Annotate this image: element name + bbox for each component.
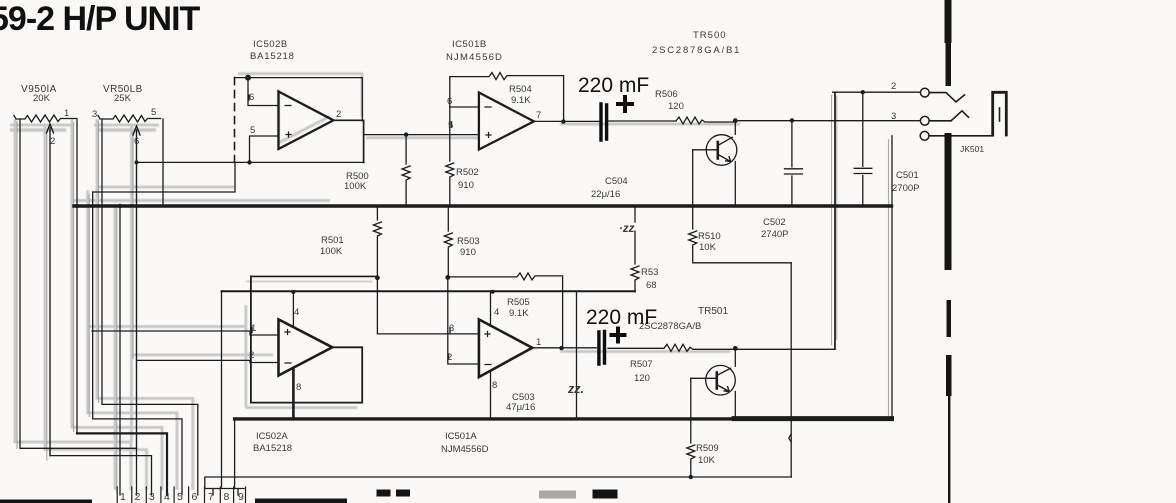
resistor R510 10K from TR500 base bbox=[689, 150, 792, 263]
svg-text:R510: R510 bbox=[698, 231, 721, 242]
wire pot B wiper to IC502B buffer node bbox=[137, 161, 365, 163]
transistor TR500 circle bbox=[706, 135, 737, 166]
TR501 base lead bbox=[691, 377, 717, 379]
svg-text:8: 8 bbox=[492, 380, 497, 391]
svg-text:47μ/16: 47μ/16 bbox=[506, 402, 535, 413]
ground rail thick right portion bbox=[734, 416, 892, 421]
svg-text:2: 2 bbox=[891, 81, 896, 92]
svg-text:120: 120 bbox=[634, 373, 650, 384]
connector pin numbers 1-9 bbox=[120, 491, 244, 503]
svg-text:2740P: 2740P bbox=[761, 229, 788, 240]
svg-text:2: 2 bbox=[447, 352, 452, 363]
svg-text:5: 5 bbox=[177, 491, 183, 503]
op-amp IC502A triangle bbox=[279, 319, 333, 375]
wire pot B left end (pin 3) to connector pin 6 bbox=[102, 119, 198, 495]
resistor R501 100K bbox=[373, 206, 381, 278]
TR501 collector lead bbox=[717, 368, 731, 375]
svg-text:9: 9 bbox=[238, 491, 244, 503]
svg-text:R501: R501 bbox=[321, 235, 344, 246]
svg-text:5: 5 bbox=[448, 120, 453, 131]
TR501 base bar bbox=[715, 373, 718, 389]
wire TR501 collector to output line bbox=[734, 348, 736, 366]
svg-text:3: 3 bbox=[149, 491, 155, 503]
svg-text:R509: R509 bbox=[696, 443, 719, 454]
capacitor C504 / resistor R553 6.8 chain bbox=[631, 206, 639, 292]
svg-text:3: 3 bbox=[449, 323, 454, 334]
node TR501 collector bbox=[733, 346, 738, 351]
TR500 collector lead bbox=[718, 137, 733, 145]
node pot A right at bus bbox=[75, 204, 79, 208]
IC502B input polarity marks bbox=[285, 106, 291, 138]
connector pin separator ticks bbox=[117, 487, 245, 503]
ground bus (upper) bbox=[74, 204, 892, 207]
svg-text:NJM4556D: NJM4556D bbox=[446, 52, 503, 63]
svg-text:2: 2 bbox=[50, 136, 55, 147]
mute control line bbox=[205, 477, 791, 489]
cut-off artwork bars at bottom edge bbox=[0, 490, 618, 503]
resistor R503 910 bbox=[444, 206, 452, 278]
svg-text:120: 120 bbox=[668, 101, 684, 112]
svg-text:R503: R503 bbox=[457, 236, 480, 247]
node IC502B pin5 tap bbox=[247, 160, 251, 164]
svg-text:4: 4 bbox=[294, 307, 299, 318]
wire TR501 emitter to ground rail bbox=[734, 392, 736, 419]
op-amp IC501A triangle bbox=[479, 319, 532, 377]
jack sleeve wire to plug bbox=[929, 135, 993, 137]
svg-text:6: 6 bbox=[192, 491, 198, 503]
svg-text:C502: C502 bbox=[763, 217, 786, 228]
node IC502B feedback corner bbox=[245, 75, 251, 81]
wire mute feed vertical bbox=[790, 263, 792, 477]
wire IC502B feedback loop top bbox=[235, 78, 363, 121]
svg-text:9.1K: 9.1K bbox=[509, 308, 529, 319]
svg-text:9.1K: 9.1K bbox=[511, 95, 531, 106]
TR500 emitter lead with arrow bbox=[718, 154, 731, 161]
node pin1 wire at bus bbox=[118, 204, 122, 208]
IC502A input polarity marks bbox=[285, 330, 291, 364]
svg-text:1: 1 bbox=[251, 323, 256, 334]
svg-text:100K: 100K bbox=[320, 246, 343, 257]
node IC501B output feedback bbox=[561, 119, 565, 123]
svg-text:2: 2 bbox=[249, 350, 254, 361]
resistor R505 9.1K in IC501A feedback loop bbox=[448, 273, 563, 348]
resistor R507 120 on lower output line bbox=[608, 344, 835, 351]
svg-text:R507: R507 bbox=[630, 359, 653, 370]
svg-text:6: 6 bbox=[447, 96, 452, 107]
svg-text:6: 6 bbox=[249, 92, 254, 103]
potentiometer VR500A body bbox=[14, 115, 77, 122]
svg-text:7: 7 bbox=[208, 491, 214, 503]
jack JK501 contact circle 2 bbox=[920, 88, 929, 97]
node R509 at mute line bbox=[689, 475, 693, 479]
node IC502A pin4 at rail bbox=[291, 290, 295, 294]
svg-text:2: 2 bbox=[135, 491, 141, 503]
wire IC502B non-inverting input (pin 5) bbox=[250, 136, 279, 162]
transistor TR501 circle bbox=[706, 365, 736, 395]
svg-text:R505: R505 bbox=[507, 297, 530, 308]
wire rail-to-rail vertical at x576 bbox=[576, 292, 578, 419]
svg-text:2700P: 2700P bbox=[892, 183, 919, 194]
wire R503 to IC501A inverting input (pin 2) bbox=[448, 277, 479, 364]
svg-text:10K: 10K bbox=[699, 242, 717, 253]
svg-text:910: 910 bbox=[458, 180, 474, 191]
svg-text:4: 4 bbox=[494, 307, 499, 318]
resistor R502 910 bbox=[446, 77, 454, 206]
svg-text:10K: 10K bbox=[698, 455, 716, 466]
wire to jack tip contact 3 bbox=[735, 120, 920, 122]
svg-text:1: 1 bbox=[120, 491, 126, 503]
svg-text:IC501B: IC501B bbox=[452, 39, 487, 50]
IC502A supply pin 8 wire bbox=[292, 368, 295, 419]
node R501 bottom bbox=[375, 275, 380, 280]
svg-text:IC502A: IC502A bbox=[256, 431, 288, 442]
wire IC501A output (pin 1) bbox=[532, 347, 596, 349]
svg-text:IC501A: IC501A bbox=[445, 431, 477, 442]
wire rail end down to connector bbox=[234, 419, 236, 489]
wire pot A left end to connector pin 2 bbox=[20, 119, 137, 495]
TR500 base bar bbox=[716, 142, 719, 159]
wire ground bus to connector pin 1 bbox=[119, 206, 121, 495]
wire to IC501B non-inverting input bbox=[364, 134, 479, 136]
svg-text:3: 3 bbox=[891, 111, 896, 122]
svg-text:8: 8 bbox=[224, 491, 230, 503]
svg-text:R502: R502 bbox=[456, 167, 479, 178]
svg-text:1: 1 bbox=[64, 108, 69, 119]
wire pot A wiper to connector pin 3 bbox=[50, 456, 152, 495]
svg-text:20K: 20K bbox=[33, 93, 51, 104]
svg-text:8: 8 bbox=[296, 382, 301, 393]
wire pot A right end (pin 1) down to ground bus bbox=[76, 119, 78, 433]
wire IC501B output (pin 7) bbox=[534, 120, 599, 122]
svg-text:68: 68 bbox=[646, 280, 657, 291]
svg-text:5: 5 bbox=[250, 125, 255, 136]
capacitor C501 2700P bbox=[854, 92, 872, 206]
svg-text:R506: R506 bbox=[655, 89, 678, 100]
IC502A supply pin 4 wire bbox=[292, 292, 294, 327]
TR501 emitter lead with arrow bbox=[717, 385, 729, 392]
TR500 base lead bbox=[693, 149, 718, 151]
wire jack sleeve to ground rail bbox=[891, 136, 893, 419]
jack plug inner mark bbox=[999, 108, 1001, 121]
resistor R504 9.1K in IC501B feedback loop bbox=[450, 73, 564, 122]
node IC501A output feedback bbox=[559, 346, 563, 350]
op-amp IC502B triangle bbox=[279, 92, 334, 150]
jog on mute feed wire bbox=[789, 434, 792, 442]
svg-text:R504: R504 bbox=[509, 84, 532, 95]
potentiometer VR500B body bbox=[98, 115, 161, 122]
svg-text:5: 5 bbox=[151, 107, 156, 118]
wire node stub at y192 bbox=[93, 162, 235, 192]
node R503 bottom bbox=[445, 275, 450, 280]
IC501B input polarity marks bbox=[485, 107, 491, 138]
svg-text:IC502B: IC502B bbox=[253, 39, 288, 50]
capacitor 220mF coupling (lower, annotation) bbox=[599, 329, 625, 365]
node IC501A pin4 at rail bbox=[491, 290, 495, 294]
wire lower channel output up to jack contact 2 bbox=[834, 92, 836, 348]
svg-text:3: 3 bbox=[92, 109, 97, 120]
potentiometer VR500B wiper arrow (pin 6) bbox=[133, 126, 140, 448]
IC501A input polarity marks bbox=[485, 332, 491, 365]
svg-text:220 mF: 220 mF bbox=[586, 306, 657, 329]
wire TR500 emitter to ground bus bbox=[734, 162, 736, 206]
wire jack contact 2 horizontal bbox=[833, 91, 920, 93]
svg-text:6: 6 bbox=[134, 136, 139, 147]
wire continuation to connector pin 4 bbox=[77, 433, 167, 495]
wire rail left end down to connector pin 8 bbox=[221, 291, 223, 487]
svg-text:7: 7 bbox=[536, 110, 541, 121]
wire IC501B inverting input (pin 6) bbox=[450, 106, 479, 108]
wire stubs to connector pins 7 and 8 bbox=[213, 489, 238, 496]
wire IC502B inverting input (pin 6) bbox=[248, 78, 279, 106]
pin hook ticks bbox=[249, 95, 452, 359]
wire R501 junction to IC501A non-inverting input (pin 3) bbox=[377, 278, 479, 334]
wire to IC502A non-inverting input bbox=[92, 331, 279, 335]
wire to IC502A inverting input bbox=[137, 360, 279, 362]
svg-text:JK501: JK501 bbox=[960, 144, 984, 154]
svg-text:R53: R53 bbox=[641, 267, 658, 278]
svg-text:BA15218: BA15218 bbox=[253, 443, 292, 454]
jack contact 2 spring prong bbox=[929, 93, 964, 102]
svg-text:NJM4556D: NJM4556D bbox=[441, 444, 489, 455]
svg-text:910: 910 bbox=[460, 247, 476, 258]
svg-text:TR501: TR501 bbox=[698, 306, 728, 317]
chassis boundary bar segments (right edge) bbox=[945, 0, 952, 503]
resistor R506 120 on output line bbox=[609, 117, 736, 124]
node R500 top bbox=[404, 132, 408, 136]
svg-text:25K: 25K bbox=[114, 93, 132, 104]
svg-text:4: 4 bbox=[164, 491, 170, 503]
ground rail (lower) bbox=[235, 417, 892, 420]
svg-text:2: 2 bbox=[336, 109, 341, 120]
jack JK501 sleeve contact circle bbox=[920, 131, 929, 140]
capacitor C502 2700P bbox=[785, 120, 803, 206]
wire IC502A feedback box bbox=[251, 276, 362, 402]
wire pot B right end (pin 5) to ground bus bbox=[162, 119, 164, 206]
wire IC502A node to R501 junction bbox=[251, 275, 378, 277]
svg-text:TR500: TR500 bbox=[693, 30, 727, 41]
jack contact 3 spring prong bbox=[929, 111, 968, 121]
svg-text:·zz: ·zz bbox=[619, 223, 635, 235]
jack plug body bbox=[993, 92, 1007, 135]
wire IC502B output (pin 2) step down bbox=[334, 120, 364, 162]
op-amp IC501B triangle bbox=[479, 93, 534, 150]
node TR500 collector bbox=[733, 118, 738, 123]
capacitor 220mF coupling (upper, annotation) bbox=[601, 97, 632, 140]
svg-text:C501: C501 bbox=[896, 170, 919, 181]
svg-text:zz.: zz. bbox=[567, 382, 584, 396]
wire bundle down to connector pin 5 bbox=[93, 192, 182, 495]
wire dashed drop at x234 bbox=[234, 78, 236, 163]
svg-text:BA15218: BA15218 bbox=[250, 51, 295, 62]
wire TR500 collector to output line bbox=[734, 121, 736, 135]
supply rail of lower section bbox=[222, 290, 636, 292]
node C502 top bbox=[790, 118, 794, 122]
svg-text:1: 1 bbox=[536, 337, 541, 348]
svg-text:C504: C504 bbox=[605, 176, 628, 187]
resistor R500 100K bbox=[402, 135, 410, 206]
svg-text:220 mF: 220 mF bbox=[578, 74, 649, 97]
node pot B wiper tap bbox=[135, 160, 139, 164]
resistor R509 10K from TR501 base bbox=[687, 378, 695, 477]
IC501A supply pins 4 and 8 wires bbox=[490, 292, 492, 419]
svg-text:59-2 H/P UNIT: 59-2 H/P UNIT bbox=[0, 0, 201, 38]
svg-text:22μ/16: 22μ/16 bbox=[591, 189, 620, 200]
svg-text:100K: 100K bbox=[344, 181, 367, 192]
node C501 top bbox=[861, 90, 865, 94]
jack JK501 contact circle 3 bbox=[920, 116, 929, 125]
svg-text:2SC2878GA/B1: 2SC2878GA/B1 bbox=[652, 45, 741, 56]
potentiometer VR500A wiper arrow (pin 2) bbox=[47, 124, 54, 456]
